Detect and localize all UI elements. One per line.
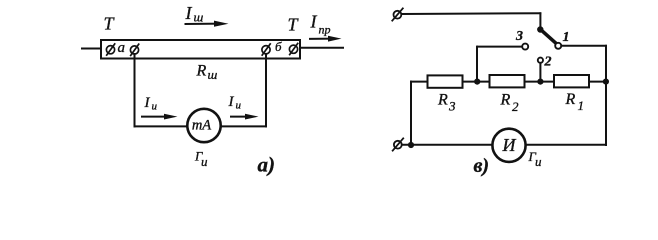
svg-text:I: I xyxy=(310,12,318,32)
svg-text:ш: ш xyxy=(208,67,218,82)
svg-text:I: I xyxy=(228,94,235,110)
svg-text:3: 3 xyxy=(448,99,456,114)
svg-text:R: R xyxy=(500,92,511,109)
svg-text:I: I xyxy=(185,3,193,23)
svg-text:а: а xyxy=(118,40,126,56)
svg-text:пр: пр xyxy=(319,23,331,37)
svg-text:а): а) xyxy=(258,153,276,177)
svg-text:R: R xyxy=(565,91,576,108)
svg-text:И: И xyxy=(502,135,517,155)
svg-text:и: и xyxy=(201,154,208,169)
svg-text:1: 1 xyxy=(563,30,570,45)
svg-text:T: T xyxy=(288,15,300,35)
svg-text:2: 2 xyxy=(512,99,519,114)
svg-text:ш: ш xyxy=(194,10,204,25)
svg-text:тА: тА xyxy=(192,118,211,134)
svg-text:R: R xyxy=(437,92,448,109)
svg-text:1: 1 xyxy=(578,98,585,113)
svg-text:в): в) xyxy=(474,155,490,177)
svg-text:R: R xyxy=(196,63,207,80)
svg-text:и: и xyxy=(535,154,542,169)
svg-text:2: 2 xyxy=(544,55,552,70)
svg-text:I: I xyxy=(144,95,151,111)
svg-text:б: б xyxy=(275,39,282,54)
svg-text:и: и xyxy=(236,100,242,112)
svg-text:T: T xyxy=(104,14,116,34)
svg-text:и: и xyxy=(152,101,158,113)
svg-text:3: 3 xyxy=(515,29,523,44)
